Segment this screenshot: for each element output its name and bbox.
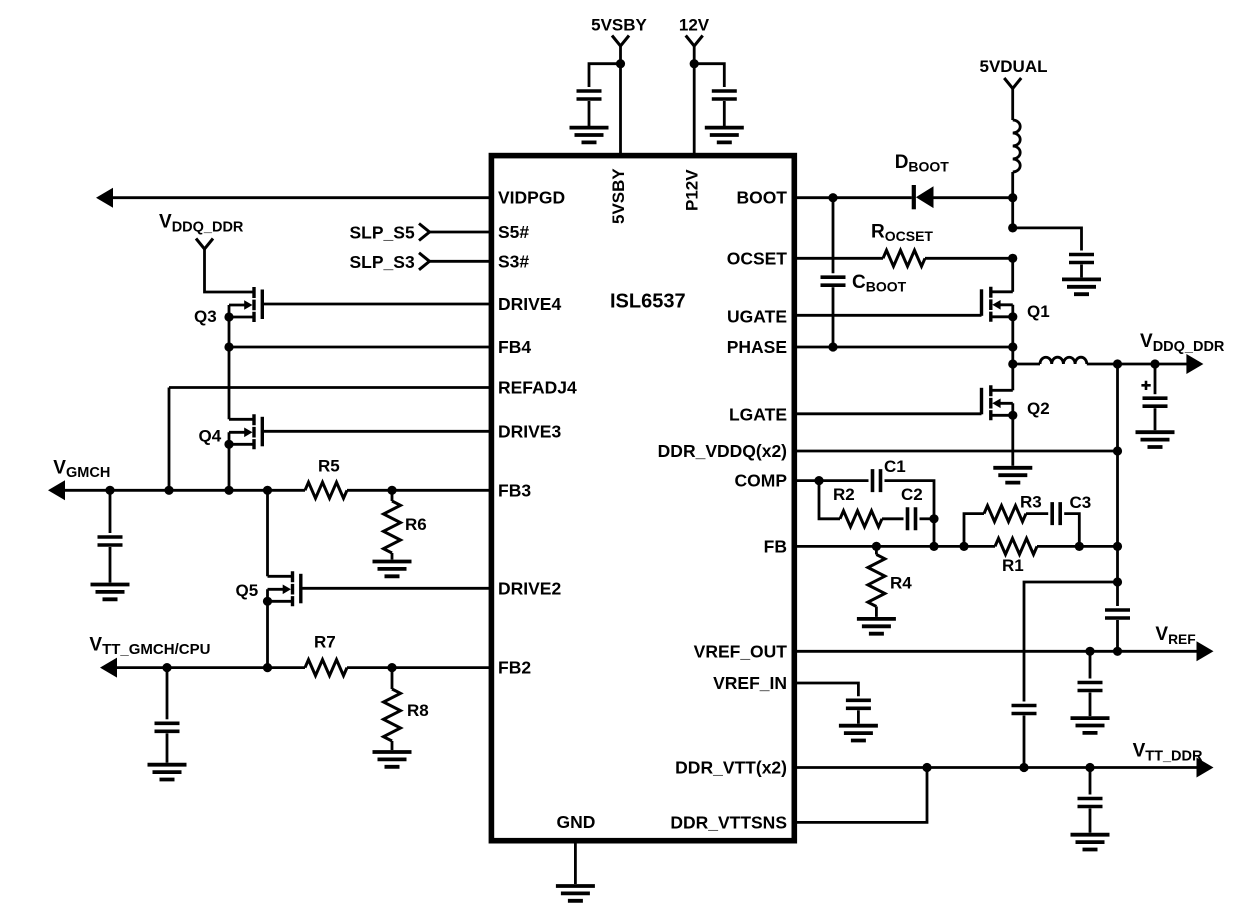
node Q5 source <box>263 597 272 606</box>
ground 5VDUAL bypass <box>1062 279 1101 294</box>
wire cap to ground <box>723 101 726 126</box>
svg-text:VREF_OUT: VREF_OUT <box>694 641 788 661</box>
wire C3 branch right riser <box>1064 514 1079 547</box>
wire 5VSBY to bypass cap <box>589 64 621 87</box>
resistor R2 <box>840 511 882 527</box>
wire cap to ground <box>166 733 169 762</box>
wire Q5 source to V_TT line <box>266 601 269 667</box>
ground VREF_IN cap <box>839 726 878 741</box>
node COMP junction <box>814 476 823 485</box>
svg-text:UGATE: UGATE <box>727 307 787 327</box>
wire diode to 5VDUAL rail <box>934 196 1013 199</box>
wire FB4 to IC <box>229 346 491 349</box>
supply symbol 12V <box>686 36 703 47</box>
capacitor C_BOOT <box>821 277 846 285</box>
node PHASE C_BOOT junction <box>828 342 837 351</box>
wire cap to ground <box>1089 809 1092 833</box>
wire rail to Q1 drain <box>1011 258 1014 292</box>
capacitor C1 <box>873 469 881 492</box>
svg-text:PHASE: PHASE <box>727 337 787 357</box>
wire Q5 drain from V_GMCH line <box>266 490 269 576</box>
arrow V_DDQ_DDR pointing right <box>1186 354 1203 374</box>
connector chevron SLP_S3 <box>419 253 430 270</box>
node Q2 source <box>1008 411 1017 420</box>
wire rail cap to VREF line <box>1116 620 1119 651</box>
ground VREF cap <box>1071 718 1110 733</box>
wire R5 to FB3 pin <box>347 489 491 492</box>
wire R6 junction down <box>391 490 394 501</box>
wire R3 to C3 <box>1026 512 1048 515</box>
node VREF cap junction <box>1085 647 1094 656</box>
wire LGATE to Q2 gate <box>794 412 981 415</box>
resistor R8 <box>384 689 401 741</box>
capacitor VTT decoupling <box>1078 799 1103 807</box>
wire VREF_OUT line <box>794 650 1198 653</box>
node Q1 source <box>1008 312 1017 321</box>
capacitor C3 <box>1052 502 1060 525</box>
node BOOT C_BOOT junction <box>828 193 837 202</box>
svg-text:FB: FB <box>764 536 787 556</box>
wire VREF cap branch <box>1089 651 1092 678</box>
wire VTT cap branch <box>1089 768 1092 795</box>
wire PHASE pin line <box>794 346 1013 349</box>
node DDR_VDDQ rail junction <box>1113 446 1122 455</box>
wire DDR_VTTSNS to VTT line <box>794 768 927 823</box>
svg-text:S5#: S5# <box>498 222 529 242</box>
node polarized cap junction <box>1150 359 1159 368</box>
capacitor series VREF rail <box>1105 610 1130 618</box>
ground R6 <box>373 562 412 577</box>
wire PHASE node to output node <box>1011 347 1014 364</box>
wire 5VDUAL stem to inductor <box>1011 89 1014 121</box>
transistor Q3 <box>229 287 262 322</box>
svg-text:12V: 12V <box>679 16 710 35</box>
transistor Q1 <box>982 287 1013 322</box>
ground Q2 source <box>993 468 1032 483</box>
capacitor V_GMCH decoupling <box>98 537 123 545</box>
resistor R4 <box>868 555 885 607</box>
ground 12V bypass <box>705 128 744 143</box>
svg-text:DRIVE4: DRIVE4 <box>498 294 561 314</box>
ground V_GMCH cap <box>91 585 130 600</box>
capacitor VREF decoupling <box>1078 683 1103 691</box>
svg-text:Q4: Q4 <box>199 427 222 446</box>
node 12V junction <box>690 59 699 68</box>
svg-text:DDR_VTTSNS: DDR_VTTSNS <box>670 812 787 832</box>
supply symbol 5VDUAL <box>1004 78 1021 89</box>
node Q5 drain junction <box>263 486 272 495</box>
resistor R6 <box>384 501 401 553</box>
wire VIDPGD output line <box>112 196 491 199</box>
node diode anode junction <box>1008 193 1017 202</box>
wire main rail from output to series cap <box>1116 364 1119 606</box>
svg-text:Q5: Q5 <box>236 581 259 600</box>
transistor Q5 <box>268 571 301 606</box>
wire OCSET pin to R_OCSET <box>794 257 883 260</box>
svg-text:Q2: Q2 <box>1027 399 1050 418</box>
node FB C2 junction <box>929 542 938 551</box>
wire 5VSBY stem <box>619 46 622 64</box>
svg-text:R2: R2 <box>833 485 855 504</box>
wire V_TT / FB2 line left of R7 <box>116 666 305 669</box>
svg-text:DDR_VTT(x2): DDR_VTT(x2) <box>675 758 787 778</box>
wire DDR_VDDQ(x2) pin to main rail <box>794 450 1117 453</box>
wire Q4 source to V_GMCH line <box>228 444 231 490</box>
wire rail down to bypass branch <box>1011 198 1014 228</box>
arrow V_TT_DDR pointing right <box>1197 758 1214 778</box>
node V_TT cap junction <box>162 663 171 672</box>
capacitor 5VDUAL bypass <box>1069 255 1094 263</box>
node 5VSBY junction <box>616 59 625 68</box>
resistor R1 <box>995 538 1037 554</box>
svg-text:S3#: S3# <box>498 251 529 271</box>
wire branch to bypass cap <box>1013 228 1082 251</box>
svg-text:Q1: Q1 <box>1027 302 1050 321</box>
svg-text:REFADJ4: REFADJ4 <box>498 378 577 398</box>
node FB R4 junction <box>872 542 881 551</box>
svg-text:C2: C2 <box>901 485 923 504</box>
wire Q2 source to ground <box>1011 415 1014 466</box>
node rail VTT branch junction <box>1113 577 1122 586</box>
wire branch rail to VTT column <box>1024 582 1118 702</box>
wire C2 node down to FB line <box>933 519 936 547</box>
ground VTT cap <box>1071 835 1110 850</box>
capacitor 12V bypass <box>712 91 737 99</box>
node VTTSNS junction <box>922 763 931 772</box>
node VREF rail junction <box>1113 647 1122 656</box>
arrow V_TT_GMCH/CPU pointing left <box>100 658 117 678</box>
wire GND pin stub <box>574 841 577 884</box>
wire C1 to C2 node <box>885 481 935 519</box>
wire 5VSBY to IC pin 5VSBY <box>619 64 622 156</box>
svg-text:COMP: COMP <box>735 471 788 491</box>
node FB rail junction <box>1113 542 1122 551</box>
wire DRIVE4 to Q3 gate <box>262 303 491 306</box>
svg-text:R7: R7 <box>314 633 336 652</box>
svg-text:5VSBY: 5VSBY <box>609 168 628 224</box>
supply symbol V_DDQ_DDR <box>196 239 213 250</box>
wire R2 to C2 <box>882 517 904 520</box>
svg-text:DRIVE3: DRIVE3 <box>498 421 561 441</box>
svg-text:OCSET: OCSET <box>727 248 788 268</box>
wire V_GMCH down to cap <box>109 490 112 533</box>
node V_GMCH cap junction <box>105 486 114 495</box>
node Q5 source junction on V_TT line <box>263 663 272 672</box>
wire supply stem to Q3 drain <box>205 249 230 292</box>
svg-text:R4: R4 <box>890 574 912 593</box>
arrow V_GMCH pointing left <box>48 480 65 500</box>
node OCSET rail junction <box>1008 254 1017 263</box>
ground output bulk cap <box>1136 432 1175 447</box>
wire 12V to bypass cap <box>694 64 724 87</box>
svg-text:DRIVE2: DRIVE2 <box>498 578 561 598</box>
svg-text:LGATE: LGATE <box>729 405 787 425</box>
node VTT cap junction <box>1085 763 1094 772</box>
wire DRIVE3 to Q4 gate <box>262 430 491 433</box>
node Q3 source <box>224 312 233 321</box>
svg-text:R6: R6 <box>405 515 427 534</box>
node bypass branch junction <box>1008 223 1017 232</box>
node C1 C2 junction <box>929 514 938 523</box>
ground 5VSBY bypass <box>570 128 609 143</box>
svg-text:DDR_VDDQ(x2): DDR_VDDQ(x2) <box>658 441 787 461</box>
wire UGATE to Q1 gate <box>794 314 981 317</box>
svg-text:FB3: FB3 <box>498 480 531 500</box>
resistor R7 <box>305 660 347 676</box>
wire VREF_IN pin to cap <box>794 683 858 696</box>
node VTT column junction <box>1019 763 1028 772</box>
wire Q1 source to PHASE node <box>1011 317 1014 347</box>
resistor R5 <box>305 482 347 498</box>
wire inductor to V_DDQ_DDR arrow <box>1087 363 1188 366</box>
wire cap to ground <box>109 547 112 583</box>
resistor R_OCSET <box>883 250 925 266</box>
node FB4 junction <box>224 342 233 351</box>
node R3 right junction <box>1075 542 1084 551</box>
ground V_TT_GMCH cap <box>148 765 187 780</box>
ground R8 <box>373 752 412 767</box>
wire DRIVE2 to Q5 gate <box>301 587 492 590</box>
diode D_BOOT triangle <box>916 186 934 208</box>
node R6 junction <box>387 486 396 495</box>
arrow VIDPGD pointing left <box>96 188 113 208</box>
label polarity plus sign <box>1141 381 1150 390</box>
wire FB4 node down to Q4 drain elbow <box>228 347 231 419</box>
wire DDR_VTT(x2) line <box>794 766 1198 769</box>
wire cap to ground <box>857 710 860 723</box>
arrow V_REF pointing right <box>1197 641 1214 661</box>
wire cap to ground <box>1154 408 1157 430</box>
node phase output junction <box>1008 359 1017 368</box>
wire R8 junction down <box>391 668 394 689</box>
svg-text:ISL6537: ISL6537 <box>610 291 686 313</box>
svg-text:GND: GND <box>557 812 596 832</box>
wire 12V to IC pin P12V <box>693 64 696 156</box>
svg-text:FB2: FB2 <box>498 658 531 678</box>
node main rail top junction <box>1113 359 1122 368</box>
node Q4 source <box>224 440 233 449</box>
wire output node to inductor <box>1013 363 1040 366</box>
wire R4 to ground <box>875 607 878 617</box>
inductor output filter <box>1040 357 1087 364</box>
wire Q3 source to FB4 node <box>228 317 231 347</box>
svg-text:VREF_IN: VREF_IN <box>713 673 787 693</box>
wire output node to Q2 drain <box>1011 364 1014 390</box>
capacitor V_TT_GMCH decoupling <box>155 723 180 731</box>
wire inductor to BOOT diode junction <box>1011 172 1014 198</box>
wire COMP down to R2 <box>819 481 840 519</box>
wire C2 to node <box>920 517 935 520</box>
wire SLP_S5 to pin S5# <box>430 231 492 234</box>
wire R4 top <box>875 546 878 554</box>
wire C_BOOT top <box>832 198 835 274</box>
connector chevron SLP_S5 <box>419 224 430 241</box>
svg-text:SLP_S3: SLP_S3 <box>350 252 415 272</box>
wire R8 to ground <box>391 741 394 750</box>
svg-text:C3: C3 <box>1070 493 1092 512</box>
capacitor C2 <box>908 507 916 530</box>
wire REFADJ4 to IC <box>169 386 491 389</box>
wire V_TT down to cap <box>166 668 169 720</box>
wire cap to ground <box>1089 693 1092 717</box>
node PHASE rail junction <box>1008 342 1017 351</box>
svg-text:5VDUAL: 5VDUAL <box>979 57 1047 76</box>
svg-text:R3: R3 <box>1020 493 1042 512</box>
wire COMP to C1 <box>819 479 869 482</box>
svg-text:Q3: Q3 <box>194 307 217 326</box>
ground R4 <box>857 619 896 634</box>
svg-text:SLP_S5: SLP_S5 <box>350 223 415 243</box>
svg-text:5VSBY: 5VSBY <box>591 16 647 35</box>
wire polarized cap top <box>1154 364 1157 394</box>
wire cap to ground <box>1080 265 1083 278</box>
wire FB pin line to R1 <box>794 545 995 548</box>
diode D_BOOT cathode bar <box>912 185 916 209</box>
supply symbol 5VSBY <box>612 36 629 47</box>
node Q4 source junction <box>224 486 233 495</box>
wire R_OCSET to rail <box>925 257 1013 260</box>
wire COMP pin stub <box>794 479 819 482</box>
svg-text:FB4: FB4 <box>498 337 531 357</box>
wire R7 to FB2 pin <box>347 666 491 669</box>
wire R3 branch left riser <box>964 514 984 547</box>
wire VTT column cap to VTT line <box>1023 716 1026 768</box>
capacitor polarized output bulk <box>1143 398 1168 406</box>
wire R1 to main rail <box>1037 545 1118 548</box>
wire 12V stem <box>693 46 696 64</box>
transistor Q4 <box>229 414 262 449</box>
svg-text:R5: R5 <box>318 457 340 476</box>
capacitor series VTT column <box>1012 706 1037 714</box>
resistor R3 <box>984 506 1026 522</box>
wire REFADJ4 down to V_GMCH line <box>168 388 171 491</box>
node R8 junction <box>387 663 396 672</box>
svg-text:R1: R1 <box>1002 556 1024 575</box>
svg-text:BOOT: BOOT <box>736 188 787 208</box>
wire cap to ground <box>588 101 591 126</box>
capacitor VREF_IN filter <box>846 700 871 708</box>
wire BOOT pin to diode <box>794 196 912 199</box>
transistor Q2 <box>982 385 1013 420</box>
node REFADJ4 junction <box>164 486 173 495</box>
wire R6 to ground <box>391 553 394 560</box>
op-amp U1 IC body ISL6537 <box>491 156 794 841</box>
svg-text:P12V: P12V <box>683 169 702 211</box>
ground GND pin <box>556 886 595 901</box>
inductor 5VDUAL input choke <box>1013 120 1021 172</box>
svg-text:R8: R8 <box>407 701 429 720</box>
wire SLP_S3 to pin S3# <box>430 260 492 263</box>
node R3 left junction <box>959 542 968 551</box>
svg-text:C1: C1 <box>884 457 906 476</box>
wire V_GMCH / FB3 line left of R5 <box>64 489 305 492</box>
svg-text:VIDPGD: VIDPGD <box>498 188 565 208</box>
capacitor 5VSBY bypass <box>577 91 602 99</box>
wire C_BOOT bottom to PHASE <box>832 287 835 347</box>
